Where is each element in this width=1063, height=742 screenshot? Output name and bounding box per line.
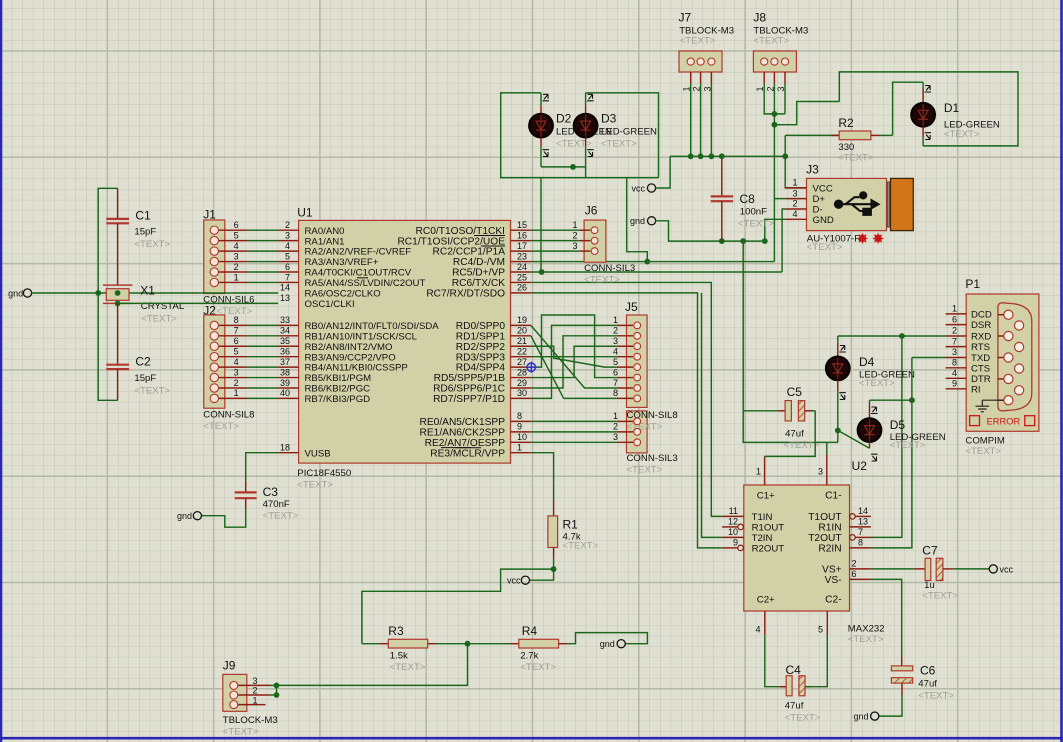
resistor R1 4.7k [548, 499, 599, 559]
capacitor C1 15pF [106, 188, 170, 285]
svg-text:1: 1 [792, 178, 797, 188]
svg-text:9: 9 [517, 422, 522, 432]
wire gnd rail to J3 GND [765, 219, 786, 241]
svg-text:39: 39 [280, 378, 290, 388]
svg-text:<TEXT>: <TEXT> [753, 36, 789, 47]
svg-text:1: 1 [234, 388, 239, 398]
wire D2 anode loop to row24 [501, 93, 659, 178]
svg-text:36: 36 [280, 346, 290, 356]
wire loop drop to row24 [540, 178, 542, 272]
svg-text:<TEXT>: <TEXT> [680, 36, 716, 47]
wire 5V rail [670, 155, 785, 157]
svg-text:1: 1 [573, 220, 578, 230]
svg-text:1: 1 [682, 86, 692, 91]
connector J2 CONN-SIL8 [203, 315, 278, 432]
node R3/R4/J9 [465, 641, 471, 647]
svg-text:6: 6 [285, 262, 290, 272]
svg-text:DTR: DTR [971, 374, 991, 385]
connector P1 COMPIM [946, 277, 1039, 457]
svg-text:RD0/SPP0: RD0/SPP0 [456, 321, 506, 332]
svg-text:RB3/AN9/CCP2/VPO: RB3/AN9/CCP2/VPO [305, 352, 396, 363]
wire D4 node down to C1- rail [837, 430, 839, 442]
red indicator dots [858, 233, 868, 243]
svg-text:2: 2 [573, 230, 578, 240]
wire D5 anode to TXD riser [870, 399, 912, 401]
terminal gnd (under U1) [193, 512, 201, 520]
svg-text:RB1/AN10/INT1/SCK/SCL: RB1/AN10/INT1/SCK/SCL [305, 331, 418, 342]
svg-text:D4: D4 [859, 355, 875, 369]
wire D1 cathode loop back to J8 branch [839, 72, 1018, 146]
wire T2IN riser [702, 293, 723, 538]
wire R4 to gnd terminal loop [567, 633, 647, 644]
svg-text:330: 330 [838, 142, 854, 153]
svg-text:14: 14 [280, 283, 290, 293]
node rail end / R2 / J3 VCC [782, 153, 788, 159]
wire C4 to C2- [805, 635, 827, 686]
capacitor C3 470nF [235, 482, 299, 522]
wire RE3 to R1 [531, 453, 554, 500]
svg-text:2: 2 [692, 86, 702, 91]
earth symbol inside P1 [976, 400, 1004, 412]
wire drop to gnd jog / row23 [627, 178, 648, 262]
svg-text:15: 15 [517, 220, 527, 230]
wire riser to U2 T2OUT [871, 336, 902, 537]
svg-text:4: 4 [952, 368, 957, 378]
capacitor C4 47uf [780, 663, 821, 724]
svg-text:1.5k: 1.5k [390, 651, 408, 662]
wire J8 pin2 drop [773, 84, 775, 125]
wire VUSB to C3 [246, 453, 279, 482]
terminal gnd (mid) [648, 217, 656, 225]
svg-text:5: 5 [613, 357, 618, 367]
svg-text:470nF: 470nF [263, 499, 290, 510]
svg-text:2: 2 [792, 199, 797, 209]
svg-text:<TEXT>: <TEXT> [390, 662, 426, 673]
node TXD riser [909, 397, 915, 403]
svg-text:3: 3 [818, 467, 823, 477]
svg-text:3: 3 [253, 676, 258, 686]
wire node down to J9 [277, 644, 468, 686]
svg-text:RC6/TX/CK: RC6/TX/CK [452, 278, 505, 289]
wire J8 riser down to D+ and row23 [773, 125, 775, 262]
wire C3 to gnd terminal [201, 509, 246, 528]
svg-text:RA4/T0CKI/C1OUT/RCV: RA4/T0CKI/C1OUT/RCV [305, 268, 412, 279]
svg-text:<TEXT>: <TEXT> [848, 634, 884, 645]
svg-text:C8: C8 [740, 192, 756, 206]
svg-text:VS-: VS- [825, 575, 842, 586]
capacitor C2 15pF [106, 303, 170, 400]
wire D3 anode rail [586, 93, 659, 178]
svg-text:RA1/AN1: RA1/AN1 [305, 236, 345, 247]
svg-text:<TEXT>: <TEXT> [784, 440, 820, 451]
svg-text:RC2/CCP1/P1A: RC2/CCP1/P1A [433, 247, 506, 258]
svg-text:<TEXT>: <TEXT> [922, 591, 958, 602]
svg-text:gnd: gnd [600, 639, 615, 649]
svg-text:27: 27 [517, 357, 527, 367]
svg-text:33: 33 [280, 315, 290, 325]
svg-text:<TEXT>: <TEXT> [556, 139, 592, 150]
svg-text:<TEXT>: <TEXT> [584, 275, 620, 286]
svg-text:47uf: 47uf [785, 428, 804, 439]
svg-text:LED-GREEN: LED-GREEN [601, 127, 657, 138]
wire TXD riser to P1 TXD [912, 357, 946, 359]
svg-text:RA2/AN2/VREF-/CVREF: RA2/AN2/VREF-/CVREF [305, 247, 412, 258]
svg-text:6: 6 [852, 569, 857, 579]
ERROR indicators [970, 416, 980, 426]
svg-text:VCC: VCC [813, 184, 833, 195]
wire RD2 to J5 pin5 [531, 346, 617, 367]
svg-text:J5: J5 [625, 300, 638, 314]
svg-text:vcc: vcc [632, 183, 646, 193]
wire C1- net rail [743, 241, 838, 442]
crystal X1 [103, 284, 185, 325]
svg-text:<TEXT>: <TEXT> [890, 440, 926, 451]
svg-text:17: 17 [517, 241, 527, 251]
svg-text:5: 5 [234, 346, 239, 356]
cursor marker at RD4 stub [526, 362, 537, 373]
svg-text:38: 38 [280, 367, 290, 377]
wire node to R4 [468, 643, 511, 645]
svg-text:1: 1 [517, 443, 522, 453]
node cathode rail [570, 164, 576, 170]
connector J1 CONN-SIL6 [203, 208, 278, 306]
svg-text:RD7/SPP7/P1D: RD7/SPP7/P1D [433, 394, 505, 405]
node J9 pin3 [274, 683, 280, 689]
svg-text:3: 3 [573, 241, 578, 251]
svg-text:<TEXT>: <TEXT> [203, 421, 239, 432]
terminal gnd (left) [23, 289, 31, 297]
svg-text:D1: D1 [944, 101, 960, 115]
svg-text:C1+: C1+ [757, 491, 775, 502]
svg-text:U1: U1 [297, 206, 313, 220]
svg-text:J8: J8 [753, 11, 766, 25]
svg-text:<TEXT>: <TEXT> [601, 139, 637, 150]
svg-text:7: 7 [613, 378, 618, 388]
svg-text:25: 25 [517, 272, 527, 282]
svg-text:R3: R3 [388, 624, 404, 638]
svg-text:gnd: gnd [8, 288, 23, 298]
svg-text:C2-: C2- [825, 595, 841, 606]
IC U2 MAX232 [722, 455, 884, 646]
svg-text:<TEXT>: <TEXT> [627, 465, 663, 476]
svg-text:<TEXT>: <TEXT> [807, 242, 843, 253]
svg-text:<TEXT>: <TEXT> [944, 129, 980, 140]
svg-text:RXD: RXD [971, 332, 991, 343]
svg-text:29: 29 [517, 378, 527, 388]
svg-text:D3: D3 [601, 112, 617, 126]
node J8 tie 1 [772, 111, 778, 117]
svg-text:DCD: DCD [971, 310, 992, 321]
wire riser to U2 R2IN [871, 400, 912, 548]
wire VS- to C6 [871, 579, 902, 656]
svg-text:40: 40 [280, 388, 290, 398]
resistor R2 330 [785, 116, 892, 164]
node C8 bottom [719, 238, 725, 244]
connector J5 CONN-SIL8 [613, 300, 647, 407]
svg-text:3: 3 [613, 336, 618, 346]
svg-text:30: 30 [517, 388, 527, 398]
svg-text:6: 6 [234, 220, 239, 230]
svg-text:3: 3 [952, 347, 957, 357]
svg-text:20: 20 [517, 326, 527, 336]
node junction at loop left [95, 290, 101, 296]
node rail C8 [719, 153, 725, 159]
LED D5 [858, 400, 946, 461]
terminal vcc (mid) [647, 184, 655, 192]
svg-text:RD4/SPP4: RD4/SPP4 [456, 363, 506, 374]
wire J8 pin3 drop [784, 84, 786, 114]
svg-text:<TEXT>: <TEXT> [520, 662, 556, 673]
svg-text:<TEXT>: <TEXT> [134, 239, 170, 250]
node rail J7.3 [709, 153, 715, 159]
svg-text:13: 13 [280, 293, 290, 303]
svg-text:5: 5 [285, 251, 290, 261]
wire RD6 to J5 pin2 [531, 336, 617, 388]
connector J3 AU-Y1007-R USB [786, 163, 914, 253]
terminal gnd (bottom right) [871, 712, 879, 720]
svg-text:2: 2 [852, 559, 857, 569]
svg-text:1: 1 [234, 272, 239, 282]
DB9 shape [998, 303, 1032, 411]
svg-text:C4: C4 [786, 663, 802, 677]
svg-text:RB0/AN12/INT0/FLT0/SDI/SDA: RB0/AN12/INT0/FLT0/SDI/SDA [305, 321, 440, 332]
connector CONN-SIL3 (below J5) [531, 410, 678, 476]
svg-text:RB5/KBI1/PGM: RB5/KBI1/PGM [305, 373, 372, 384]
svg-text:2: 2 [234, 378, 239, 388]
svg-text:7: 7 [952, 336, 957, 346]
LED D1 [911, 82, 1000, 146]
svg-text:<TEXT>: <TEXT> [627, 422, 663, 433]
svg-text:CRYSTAL: CRYSTAL [141, 301, 185, 312]
svg-text:T2OUT: T2OUT [808, 533, 841, 544]
wire X1 bottom to U1 pin13 [118, 302, 279, 304]
svg-text:8: 8 [517, 411, 522, 421]
wire J8 node to R2 branch [774, 102, 839, 125]
svg-text:DSR: DSR [971, 320, 991, 331]
svg-text:RE3/MCLR/VPP: RE3/MCLR/VPP [430, 448, 505, 459]
wire R2 to D1 anode [893, 82, 924, 135]
svg-text:CONN-SIL3: CONN-SIL3 [584, 263, 635, 274]
svg-text:J7: J7 [679, 11, 692, 25]
svg-text:19: 19 [517, 315, 527, 325]
svg-text:D2: D2 [556, 112, 572, 126]
svg-text:1: 1 [756, 467, 761, 477]
svg-text:VS+: VS+ [822, 565, 842, 576]
svg-text:RA3/AN3/VREF+: RA3/AN3/VREF+ [305, 257, 379, 268]
svg-text:2: 2 [613, 326, 618, 336]
wire R3 to node [436, 643, 468, 645]
svg-text:RTS: RTS [971, 342, 990, 353]
svg-text:1: 1 [613, 411, 618, 421]
svg-text:R1: R1 [563, 518, 579, 532]
wire C1/C2 ground loop [98, 188, 117, 400]
svg-text:4: 4 [285, 241, 290, 251]
svg-text:RD2/SPP2: RD2/SPP2 [456, 342, 506, 353]
svg-text:1: 1 [253, 695, 258, 705]
LED D3 [574, 93, 657, 167]
svg-text:12: 12 [728, 517, 738, 527]
wire J9 pin3 to pin2 tie [276, 685, 278, 695]
svg-text:3: 3 [613, 432, 618, 442]
svg-text:9: 9 [952, 379, 957, 389]
svg-text:TBLOCK-M3: TBLOCK-M3 [223, 715, 278, 726]
svg-text:T1IN: T1IN [752, 512, 773, 523]
svg-text:GND: GND [813, 215, 834, 226]
svg-text:RC5/D+/VP: RC5/D+/VP [452, 268, 505, 279]
USB shell separator [887, 182, 889, 227]
svg-text:gnd: gnd [853, 712, 868, 722]
microcontroller U1 PIC18F4550 [278, 206, 531, 491]
wire gnd to X1 to U1 pin14 [31, 292, 278, 294]
svg-text:ERROR: ERROR [987, 416, 1021, 426]
wire R1 bottom to node [553, 559, 555, 569]
svg-text:C1: C1 [135, 209, 151, 223]
svg-text:7: 7 [285, 272, 290, 282]
svg-text:26: 26 [517, 283, 527, 293]
USB trident symbol [834, 192, 879, 216]
wire RD4 to J5 pin6 [531, 315, 617, 378]
svg-text:6: 6 [613, 367, 618, 377]
svg-text:2: 2 [952, 326, 957, 336]
wire RC5 row24 to D- riser [531, 271, 782, 273]
wire RD0 diagonal to J5 pin7 [531, 325, 617, 388]
wire rail to J3 VCC [785, 135, 806, 188]
svg-text:P1: P1 [965, 277, 980, 291]
svg-text:18: 18 [280, 443, 290, 453]
svg-text:37: 37 [280, 357, 290, 367]
svg-text:MAX232: MAX232 [848, 624, 885, 635]
wire C5 right to U2 pin1 [765, 411, 816, 457]
terminal block J9 TBLOCK-M3 [223, 659, 278, 738]
svg-text:<TEXT>: <TEXT> [965, 446, 1001, 457]
USB orange plug [891, 178, 914, 230]
svg-text:J6: J6 [585, 204, 598, 218]
terminal gnd (bottom mid) [617, 640, 625, 648]
svg-text:4: 4 [792, 209, 797, 219]
svg-text:X1: X1 [140, 284, 155, 298]
svg-text:vcc: vcc [507, 576, 521, 586]
node row24/D2 branch [539, 269, 545, 275]
svg-text:RA0/AN0: RA0/AN0 [305, 226, 345, 237]
terminal vcc (bottom mid) [507, 569, 554, 586]
svg-text:<TEXT>: <TEXT> [297, 480, 333, 491]
wire RC7 row26 to U2 R2OUT [531, 293, 722, 548]
svg-text:OSC1/CLKI: OSC1/CLKI [305, 299, 355, 310]
svg-text:14: 14 [858, 506, 868, 516]
svg-text:RD6/SPP6/P1C: RD6/SPP6/P1C [433, 384, 505, 395]
svg-text:RD1/SPP1: RD1/SPP1 [456, 331, 506, 342]
wire RD3 to J5 pin4 [531, 356, 617, 358]
svg-text:T1OUT: T1OUT [808, 512, 841, 523]
wire pin3 drop [826, 442, 828, 454]
wire RD1 diagonal to J5 pin8 [531, 336, 617, 399]
svg-text:R4: R4 [522, 624, 538, 638]
svg-text:U2: U2 [852, 459, 868, 473]
wire C2+ to C4 [765, 635, 786, 686]
LED D2 [529, 93, 612, 167]
svg-text:J1: J1 [203, 208, 216, 222]
wire D3 cathode drop [585, 167, 587, 178]
svg-text:21: 21 [517, 336, 527, 346]
wire D4 anode to P1 RXD [838, 335, 946, 337]
wire J8 pin1 jog [764, 84, 785, 114]
resistor R4 2.7k [511, 624, 568, 673]
svg-text:<TEXT>: <TEXT> [134, 386, 170, 397]
svg-text:34: 34 [280, 326, 290, 336]
svg-text:<TEXT>: <TEXT> [738, 219, 774, 230]
wire RC6 row25 to U2 T1IN [531, 282, 722, 516]
LED D4 [826, 343, 915, 431]
svg-text:C3: C3 [263, 485, 279, 499]
terminal vcc (right) [989, 565, 997, 573]
svg-text:47uf: 47uf [785, 701, 804, 712]
svg-text:4: 4 [234, 241, 239, 251]
wire D2/D3 cathode rail [541, 166, 586, 168]
svg-text:RD3/SPP3: RD3/SPP3 [456, 352, 506, 363]
svg-text:4: 4 [234, 357, 239, 367]
svg-text:<TEXT>: <TEXT> [838, 153, 874, 164]
node RXD/T2OUT riser [899, 333, 905, 339]
svg-text:VUSB: VUSB [305, 448, 331, 459]
svg-text:T2IN: T2IN [752, 533, 773, 544]
svg-text:RE1/AN6/CK2SPP: RE1/AN6/CK2SPP [420, 427, 506, 438]
svg-text:R2: R2 [838, 116, 854, 130]
connector J6 CONN-SIL3 [531, 204, 635, 286]
svg-text:C5: C5 [787, 385, 803, 399]
svg-text:28: 28 [517, 367, 527, 377]
svg-text:R1IN: R1IN [818, 523, 841, 534]
wire row24 riser to J3 D- [782, 209, 786, 272]
svg-text:13: 13 [858, 517, 868, 527]
resistor R3 1.5k [362, 624, 436, 673]
svg-text:C2: C2 [135, 355, 151, 369]
svg-text:8: 8 [952, 358, 957, 368]
svg-text:gnd: gnd [630, 216, 645, 226]
svg-text:7: 7 [858, 527, 863, 537]
capacitor C5 47uf [743, 385, 819, 451]
svg-text:15pF: 15pF [134, 373, 156, 384]
svg-text:10: 10 [517, 432, 527, 442]
wire tap to J3 D+ [774, 198, 785, 200]
svg-text:RI: RI [971, 384, 981, 395]
svg-text:RB2/AN8/INT2/VMO: RB2/AN8/INT2/VMO [305, 342, 393, 353]
svg-text:RB4/AN11/KBI0/CSSPP: RB4/AN11/KBI0/CSSPP [305, 363, 408, 374]
svg-text:4: 4 [613, 346, 618, 356]
svg-text:RB6/KBI2/PGC: RB6/KBI2/PGC [305, 384, 371, 395]
wire vcc node to R3 [362, 569, 554, 644]
node C1- riser base [740, 238, 746, 244]
svg-text:4: 4 [755, 625, 760, 635]
svg-text:RA6/OSC2/CLKO: RA6/OSC2/CLKO [305, 289, 381, 300]
capacitor C8 100nF [711, 156, 774, 241]
svg-text:<TEXT>: <TEXT> [563, 541, 599, 552]
svg-text:D+: D+ [813, 194, 826, 205]
svg-text:<TEXT>: <TEXT> [918, 691, 954, 702]
node X1 bottom [115, 301, 121, 307]
svg-text:3: 3 [234, 367, 239, 377]
wire RD5 to J5 pin3 [531, 346, 617, 377]
svg-text:1: 1 [613, 315, 618, 325]
svg-text:8: 8 [613, 388, 618, 398]
svg-text:6: 6 [952, 314, 957, 324]
node row23/gnd jog [644, 259, 650, 265]
svg-text:24: 24 [517, 262, 527, 272]
svg-text:CONN-SIL3: CONN-SIL3 [627, 453, 678, 464]
svg-text:8: 8 [234, 315, 239, 325]
wire C6 to gnd terminal [879, 695, 903, 716]
svg-text:C2+: C2+ [757, 595, 775, 606]
svg-text:CTS: CTS [971, 363, 990, 374]
